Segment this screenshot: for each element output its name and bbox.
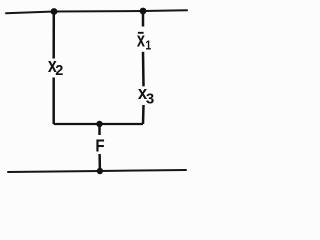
svg-text:3: 3 [146, 91, 154, 108]
contact x1-bar label text [137, 28, 152, 52]
svg-text:x: x [137, 28, 145, 51]
wire: left branch upper segment [52, 12, 55, 59]
contact x2 label [48, 54, 63, 78]
contact x1-bar label (negation bar) [138, 32, 144, 34]
wire: F stub upper [98, 124, 101, 135]
junction node on top bus (left) [51, 8, 58, 15]
wire: right branch upper segment [142, 11, 145, 27]
wire: right branch lower segment [142, 105, 145, 124]
svg-text:F: F [95, 135, 104, 156]
svg-text:1: 1 [145, 37, 151, 52]
junction node on top bus (right) [140, 8, 147, 15]
svg-text:2: 2 [55, 63, 63, 79]
junction node F (top) [96, 121, 102, 127]
wire: F stub lower [98, 154, 101, 171]
wire: right branch middle segment [142, 52, 145, 87]
top bus wire [6, 10, 187, 13]
bottom bus wire [8, 170, 186, 172]
contact x3 label [138, 82, 154, 108]
wire: left branch lower segment [52, 78, 55, 125]
wire: joining horizontal segment [54, 123, 143, 125]
junction node on bottom bus [97, 168, 103, 174]
